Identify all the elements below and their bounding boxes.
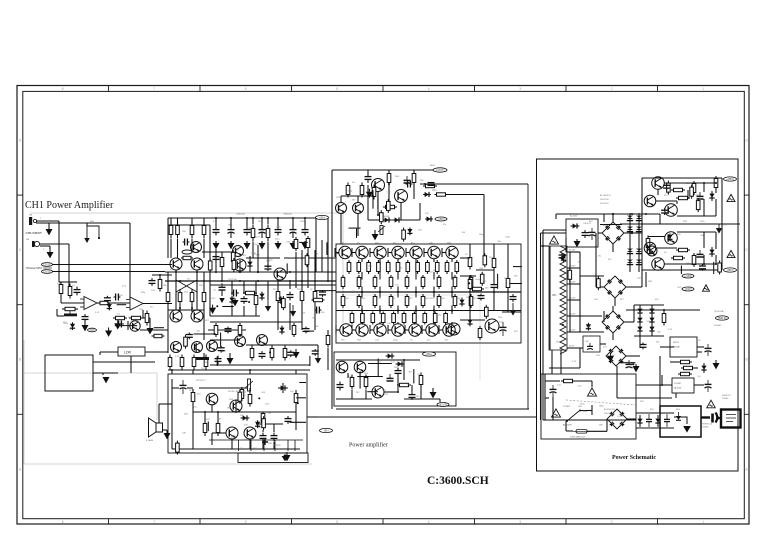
junction xyxy=(257,280,259,282)
ground input jack 2 xyxy=(47,250,54,258)
wire xyxy=(451,287,453,298)
svg-text:8: 8 xyxy=(62,87,64,91)
capacitor C27 electrolytic xyxy=(589,228,596,240)
wire E h4 xyxy=(256,423,283,425)
wire Bx6 xyxy=(286,263,288,274)
junction xyxy=(451,291,453,293)
border tick top xyxy=(657,86,659,92)
junction xyxy=(204,411,206,413)
resistor R10 xyxy=(145,311,149,326)
resistor R11 xyxy=(251,225,255,242)
wire xyxy=(295,406,297,430)
ground jumper xyxy=(84,238,90,243)
wire xyxy=(469,244,471,256)
svg-text:3: 3 xyxy=(519,87,521,91)
wire B h2 xyxy=(246,257,280,259)
wire xyxy=(56,309,58,316)
wire tap bus1 xyxy=(569,252,571,332)
wire base rail QN5 xyxy=(405,248,407,257)
resistor RL4 xyxy=(204,355,208,370)
AC inlet connector xyxy=(721,410,741,428)
svg-text:/220-240V: /220-240V xyxy=(604,413,613,415)
output stage box xyxy=(336,244,521,343)
transistor Q13 xyxy=(274,268,286,280)
transistor QN2 xyxy=(356,246,368,258)
aux box C20 xyxy=(583,336,600,352)
diode D2 xyxy=(382,217,392,222)
junction xyxy=(239,280,241,282)
resistor R50 xyxy=(561,379,575,382)
transistor Q8 xyxy=(192,342,203,353)
ground CxG10 xyxy=(366,189,373,198)
junction xyxy=(377,214,379,216)
wire xyxy=(379,259,381,262)
capacitor C32 electrolytic xyxy=(705,344,712,356)
wire xyxy=(61,302,84,304)
svg-text:CN10: CN10 xyxy=(44,263,51,267)
junction xyxy=(379,291,381,293)
capacitor C61 xyxy=(259,351,266,359)
resistor REN6 xyxy=(396,260,400,274)
switch SW1 xyxy=(566,410,581,423)
svg-text:10K: 10K xyxy=(466,297,470,299)
wire output bus xyxy=(318,416,537,418)
junction xyxy=(221,280,223,282)
diode DM640329 xyxy=(637,327,642,332)
wire base rail QN7 xyxy=(441,248,443,257)
wire xyxy=(177,218,179,226)
junction xyxy=(179,280,181,282)
wire xyxy=(612,306,614,311)
resistor R20 xyxy=(346,183,350,198)
wire base rail QN2 xyxy=(351,248,353,257)
wire Cx2 xyxy=(349,227,361,229)
sheet inner border xyxy=(23,91,745,518)
warning triangle AC2 xyxy=(552,409,561,417)
wire B v8 xyxy=(231,305,233,316)
wire xyxy=(61,281,77,283)
resistor R48 xyxy=(681,366,695,369)
diode D6 xyxy=(467,318,472,327)
junction xyxy=(301,280,303,282)
diode D11 xyxy=(701,363,706,373)
diode DM640320 xyxy=(637,318,642,323)
resistor RA1 xyxy=(341,275,345,289)
wire F v1 xyxy=(347,373,349,378)
ground cap row 1 xyxy=(213,241,220,249)
resistor R3 xyxy=(98,301,110,304)
wire Ex0 xyxy=(207,421,209,431)
wire xyxy=(221,290,223,296)
capacitor PxC3 xyxy=(559,253,566,260)
svg-text:CN10: CN10 xyxy=(44,270,51,274)
wire xyxy=(255,281,257,294)
junction xyxy=(612,213,614,215)
wire E v9 xyxy=(262,430,264,432)
wire K1 feed xyxy=(660,346,670,348)
svg-text:C49: C49 xyxy=(697,340,700,342)
diode D7 xyxy=(386,353,395,358)
svg-text:AC100V: AC100V xyxy=(570,215,578,218)
resistor RL1 xyxy=(168,355,172,370)
wire xyxy=(53,271,166,273)
svg-text:RB11: RB11 xyxy=(430,165,436,167)
wire xyxy=(99,352,101,355)
transistor Q2 xyxy=(170,258,182,270)
wire xyxy=(289,280,291,289)
wire reg neg feed xyxy=(641,270,643,287)
svg-text:100-120V: 100-120V xyxy=(600,199,609,201)
junction xyxy=(415,309,417,311)
wire rail top xyxy=(600,213,660,215)
resistor PxR2 xyxy=(597,276,601,290)
connector CN2 ring xyxy=(34,241,39,246)
trimmer VR1 xyxy=(64,314,77,317)
junction xyxy=(631,232,633,234)
capacitor BwC1 xyxy=(186,333,193,340)
svg-text:10K: 10K xyxy=(425,298,429,300)
transformer T1 core xyxy=(549,246,551,350)
wire F v5 xyxy=(397,376,399,392)
svg-text:6: 6 xyxy=(245,520,247,524)
wire reg v2 xyxy=(657,189,659,195)
wire xyxy=(167,304,169,340)
wire xyxy=(633,305,635,322)
junction xyxy=(203,280,205,282)
wire Cx11 xyxy=(356,229,358,238)
svg-text:C50: C50 xyxy=(697,376,700,378)
transistor Q20 xyxy=(336,361,348,373)
diode CxD0 xyxy=(407,228,412,236)
wire BR2 to caps xyxy=(634,286,642,288)
svg-text:FUSE 8A/AC250V: FUSE 8A/AC250V xyxy=(570,436,586,439)
junction xyxy=(277,280,279,282)
junction xyxy=(645,213,647,215)
wire xyxy=(36,222,130,224)
border tick top xyxy=(474,86,476,92)
diode D62 xyxy=(279,326,284,335)
wire xyxy=(143,303,172,305)
capacitor C9 xyxy=(287,292,294,301)
svg-text:2SC: 2SC xyxy=(581,219,586,221)
junction xyxy=(235,411,237,413)
transistor QN5 xyxy=(410,246,422,258)
ground cap row 7 xyxy=(302,241,309,249)
svg-text:10K: 10K xyxy=(351,291,355,293)
net label RB11 out xyxy=(433,168,447,172)
wire stub xyxy=(483,243,485,245)
wire xyxy=(627,418,636,420)
resistor REP10 xyxy=(444,312,448,325)
wire E v4 xyxy=(211,433,213,445)
junction xyxy=(433,291,435,293)
wire D right v1 xyxy=(493,244,495,257)
diode pair DP630230 xyxy=(627,224,633,235)
wire base QN2 xyxy=(352,252,356,254)
wire tap AC14V xyxy=(567,315,580,317)
wire E v6 xyxy=(249,439,251,449)
wire E v12 xyxy=(249,388,251,393)
wire xyxy=(304,218,306,227)
resistor R25 xyxy=(468,255,472,270)
junction xyxy=(267,217,269,219)
wire filter feed xyxy=(565,238,567,252)
resistor CxR3 xyxy=(402,228,406,242)
resistor REP1 xyxy=(350,312,354,325)
capacitor BzC4 xyxy=(218,346,225,353)
junction xyxy=(379,309,381,311)
svg-text:AC 220V: AC 220V xyxy=(563,424,572,427)
svg-text:250VAC: 250VAC xyxy=(702,426,709,429)
wire xyxy=(415,287,417,298)
junction xyxy=(397,291,399,293)
wire B v4 xyxy=(295,252,297,288)
wire B v1 xyxy=(215,249,217,272)
svg-text:3: 3 xyxy=(519,520,521,524)
resistor R47 xyxy=(678,360,692,363)
ground relay xyxy=(103,377,110,383)
svg-text:SBWR-CB: SBWR-CB xyxy=(722,395,731,397)
wire xyxy=(243,281,245,294)
wire tap AC14V xyxy=(567,331,580,333)
wire xyxy=(624,321,634,323)
speaker LS1 xyxy=(149,418,163,437)
transistor Q28 xyxy=(644,195,656,207)
resistor REP8 xyxy=(423,312,427,325)
wire B h12 xyxy=(302,344,318,346)
resistor R12 xyxy=(266,225,270,242)
resistor REN9 xyxy=(426,260,430,274)
trimmer VR3 xyxy=(380,226,383,235)
capacitor C20 xyxy=(395,368,402,377)
wire xyxy=(168,217,316,219)
wire B h1 xyxy=(202,251,233,253)
junction xyxy=(175,271,177,273)
ground VAS xyxy=(372,230,379,240)
ground IxG6 xyxy=(105,328,112,337)
junction xyxy=(397,309,399,311)
wire reg h2 xyxy=(664,182,716,184)
capacitor C3 xyxy=(82,314,89,322)
border tick bottom xyxy=(291,519,293,524)
transistor Q27 xyxy=(652,177,665,190)
svg-text:220-240V: 220-240V xyxy=(600,203,609,205)
wire top stub xyxy=(555,214,557,219)
svg-text:2SC: 2SC xyxy=(297,289,302,291)
wire base QN7 xyxy=(442,252,446,254)
resistor RBB7 xyxy=(437,294,441,308)
junction xyxy=(451,309,453,311)
wire primary left xyxy=(542,230,544,420)
wire xyxy=(527,184,529,409)
svg-text:GND: GND xyxy=(253,448,258,450)
diode DM640311 xyxy=(637,309,642,314)
diode D9 xyxy=(278,385,288,390)
capacitor C28 xyxy=(697,192,704,199)
svg-text:AC9V: AC9V xyxy=(569,345,575,348)
resistor PzR5 xyxy=(667,181,671,195)
wire B h5 xyxy=(246,344,302,346)
wire xyxy=(53,264,173,266)
border tick top xyxy=(291,86,293,92)
wire xyxy=(110,302,130,304)
wire Bz7 xyxy=(216,356,218,366)
resistor R27 xyxy=(470,287,484,290)
wire xyxy=(36,220,59,222)
wire diode row top xyxy=(636,412,674,414)
wire reg v8 xyxy=(703,255,705,264)
wire D left stub2 xyxy=(336,329,340,331)
transistor Q25 xyxy=(226,427,238,439)
svg-text:2SC: 2SC xyxy=(254,244,259,246)
wire Dx0 xyxy=(497,274,499,289)
junction xyxy=(469,275,471,277)
wire B v14 xyxy=(327,348,329,370)
wire xyxy=(361,259,363,262)
wire base QP3 xyxy=(370,329,374,331)
wire xyxy=(361,322,363,324)
transistor Q18 xyxy=(448,323,460,335)
terminal sub box xyxy=(238,453,308,463)
plus mark xyxy=(262,439,268,445)
wire B h3 xyxy=(208,329,246,331)
capacitor C66 xyxy=(491,282,498,290)
wire Bx9 xyxy=(299,241,307,243)
resistor REP7 xyxy=(413,312,417,325)
wire xyxy=(483,195,485,245)
transistor Q22 xyxy=(372,386,384,398)
wire F v4 xyxy=(365,390,367,399)
wire C v5 xyxy=(388,183,390,207)
wire B h7 xyxy=(168,224,210,226)
net label +15V xyxy=(682,274,694,278)
resistor RB1 xyxy=(169,222,173,239)
wire xyxy=(60,296,62,303)
wire D right h5 xyxy=(460,275,476,277)
wire xyxy=(142,310,144,318)
wire reg v5 xyxy=(715,188,717,193)
capacitor C1 xyxy=(74,287,81,296)
resistor REP9 xyxy=(433,312,437,325)
wire F v2 xyxy=(359,373,361,378)
ground opamp xyxy=(82,320,89,331)
transistor QP5 xyxy=(409,324,421,336)
junction xyxy=(292,217,294,219)
svg-text:10K: 10K xyxy=(256,255,260,257)
wire xyxy=(595,233,597,287)
junction xyxy=(215,271,217,273)
resistor RA5 xyxy=(405,275,409,289)
resistor RBB8 xyxy=(453,294,457,308)
svg-text:10K: 10K xyxy=(433,270,437,272)
wire xyxy=(415,272,417,280)
svg-text:Power amplifier: Power amplifier xyxy=(349,442,388,449)
transistor Q61 xyxy=(257,335,268,346)
resistor R40 xyxy=(676,196,690,199)
svg-text:2SC: 2SC xyxy=(206,419,211,421)
capacitor C22 xyxy=(387,374,394,381)
resistor RBB4 xyxy=(389,294,393,308)
resistor R9 xyxy=(152,334,165,337)
wire E v8 xyxy=(273,442,275,449)
svg-text:MOV: MOV xyxy=(676,409,681,411)
transistor Q1 xyxy=(191,242,202,253)
wire base rail QN1 xyxy=(334,248,336,257)
junction xyxy=(159,274,161,276)
capacitor C17 electrolytic xyxy=(500,322,507,336)
wire D right h3 xyxy=(460,319,485,321)
wire C v6 xyxy=(413,183,415,199)
wire B left rail xyxy=(167,218,169,258)
wire reg v9 xyxy=(703,232,705,248)
svg-text:DPDT: DPDT xyxy=(673,342,680,344)
resistor R70 xyxy=(326,333,330,348)
wire xyxy=(239,260,241,272)
resistor REN8 xyxy=(416,260,420,274)
resistor REN12 xyxy=(455,260,459,274)
wire T1 down1 xyxy=(551,350,553,374)
resistor PzR3 xyxy=(696,198,700,212)
junction DxJ6 xyxy=(468,282,470,284)
wire xyxy=(483,244,485,256)
wire Cx4 xyxy=(377,196,379,209)
diode D60 xyxy=(247,260,252,268)
wire mid rail 2 xyxy=(626,309,700,311)
resistor R32 xyxy=(397,383,411,386)
junction xyxy=(327,280,329,282)
svg-text:10K: 10K xyxy=(622,363,626,365)
net label out2 xyxy=(437,403,449,407)
wire tap to BR3 xyxy=(580,331,604,333)
svg-text:AC36V: AC36V xyxy=(569,249,576,252)
border tick left xyxy=(17,194,23,196)
wire xyxy=(187,387,193,389)
wire Bx3 xyxy=(326,242,328,255)
resistor RB2 xyxy=(176,222,180,239)
resistor DxR2 xyxy=(485,305,489,319)
op-amp U1B xyxy=(130,297,143,310)
wire xyxy=(230,218,232,227)
wire xyxy=(397,322,399,324)
transistor Q3 xyxy=(191,258,203,270)
wire xyxy=(415,259,417,262)
junction xyxy=(631,213,633,215)
wire reg h5 xyxy=(664,263,716,265)
wire reg v7 xyxy=(687,190,689,198)
wire B diff v1 xyxy=(175,270,177,310)
ground cap row 6 xyxy=(290,241,297,249)
net label TB xyxy=(716,316,729,320)
ground ByG3 xyxy=(209,305,216,314)
resistor R23 xyxy=(383,205,397,208)
wire xyxy=(40,245,50,247)
junction xyxy=(246,217,248,219)
junction box xyxy=(660,406,701,437)
net label CN10b xyxy=(42,270,53,274)
resistor R38 xyxy=(216,420,220,436)
gray zone line mid xyxy=(343,295,480,380)
wire xyxy=(598,232,602,234)
svg-text:10K: 10K xyxy=(594,299,598,301)
transistor Q23 xyxy=(206,393,218,405)
junction PyJ1 xyxy=(632,363,634,365)
junction xyxy=(289,271,291,273)
wire B v13 xyxy=(327,330,329,334)
junction xyxy=(663,309,665,311)
wire diode column xyxy=(629,214,631,272)
svg-text:2SC: 2SC xyxy=(228,224,233,226)
svg-text:CM/100V: CM/100V xyxy=(236,214,246,216)
